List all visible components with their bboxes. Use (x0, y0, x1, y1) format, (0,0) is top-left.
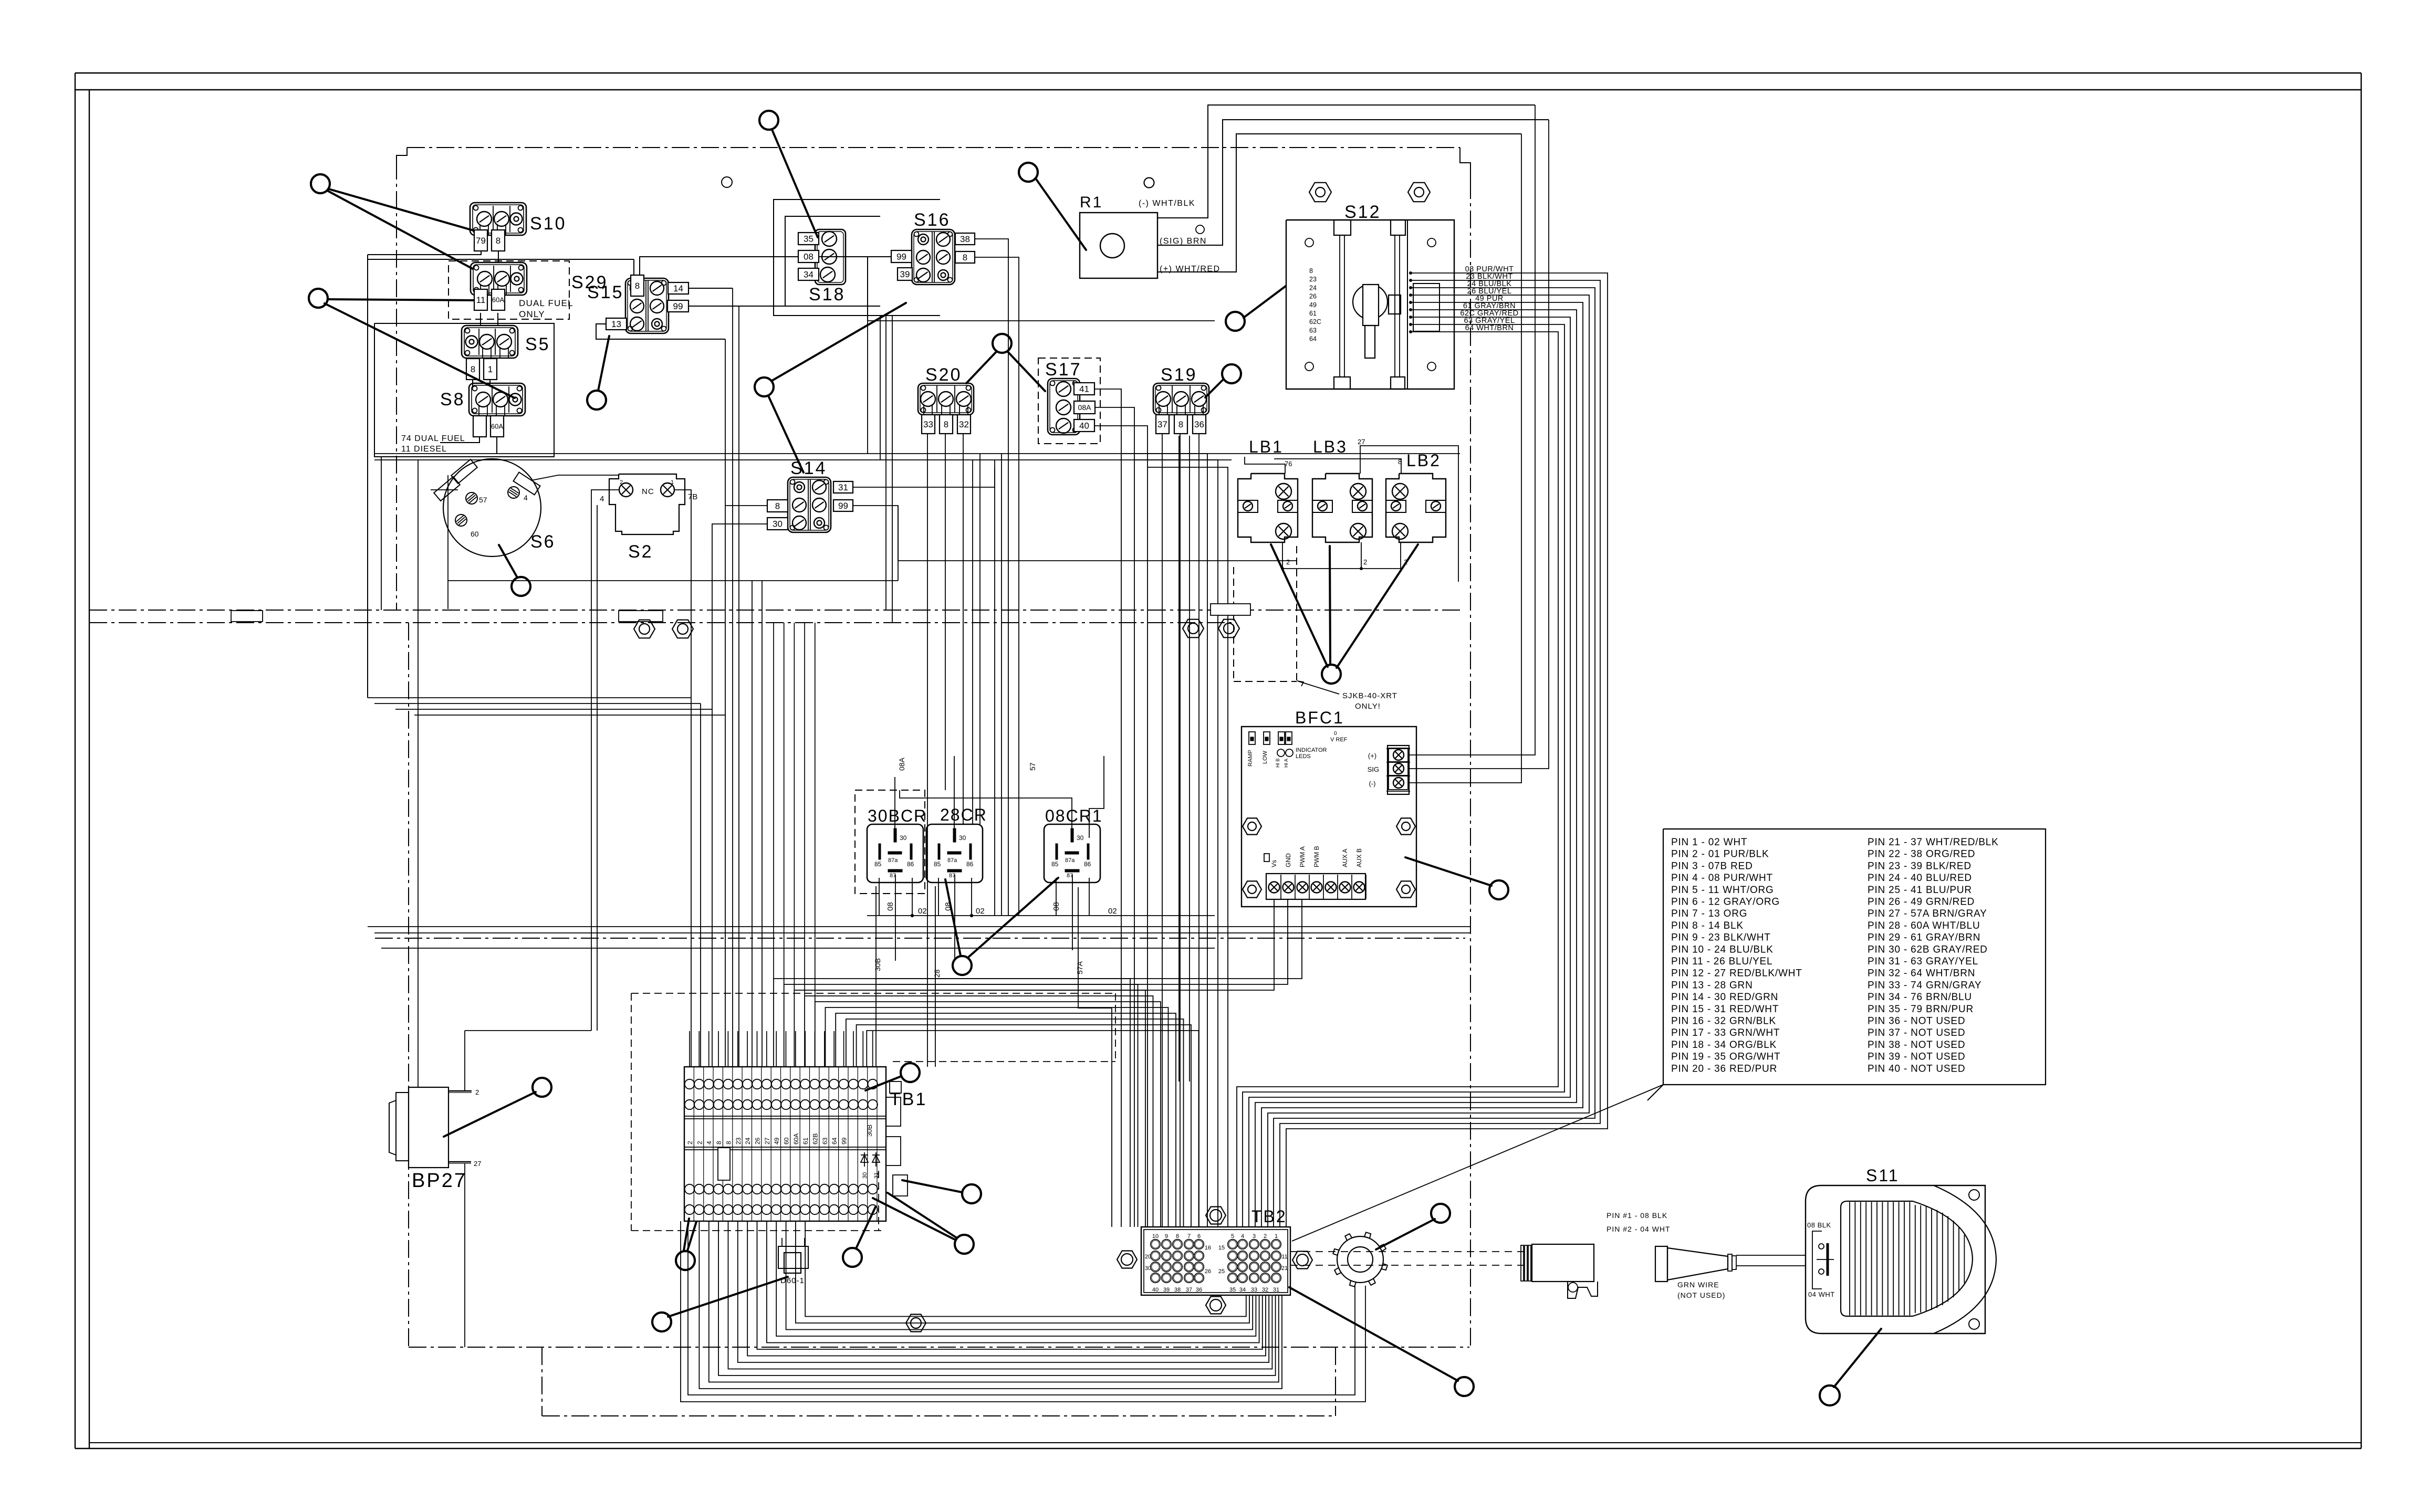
svg-text:02: 02 (1108, 907, 1117, 916)
balloon S11 (1820, 1329, 1881, 1405)
svg-text:64 WHT/BRN: 64 WHT/BRN (1465, 324, 1514, 332)
svg-text:PIN 1 - 02 WHT: PIN 1 - 02 WHT (1671, 837, 1747, 848)
wire S15-13 net vertical (725, 339, 726, 1067)
svg-text:S8: S8 (440, 390, 465, 409)
svg-text:S18: S18 (809, 285, 846, 304)
cable connector assembly (1521, 1244, 1806, 1298)
wire S12 net 64 (1237, 330, 1558, 1227)
svg-text:26: 26 (1205, 1268, 1211, 1275)
svg-text:40: 40 (1152, 1287, 1159, 1293)
hex nut chassis 3 (1183, 619, 1204, 638)
svg-text:BFC1: BFC1 (1295, 708, 1344, 727)
balloon BFC1 (1405, 857, 1508, 899)
svg-text:PIN 30 - 62B GRAY/RED: PIN 30 - 62B GRAY/RED (1868, 944, 1988, 955)
svg-text:74 DUAL FUEL: 74 DUAL FUEL (401, 434, 465, 443)
svg-text:PIN 17 - 33 GRN/WHT: PIN 17 - 33 GRN/WHT (1671, 1027, 1780, 1038)
wire S20 tags down (927, 434, 963, 1067)
wire S16-99 left (868, 257, 891, 321)
svg-text:PIN #1 - 08 BLK: PIN #1 - 08 BLK (1607, 1211, 1667, 1220)
svg-text:85: 85 (934, 860, 941, 868)
svg-text:8: 8 (471, 364, 475, 374)
svg-text:PWM A: PWM A (1299, 846, 1306, 867)
wire dash-dot chassis line middle pair (89, 610, 1460, 623)
wire R1 sig (1157, 120, 1549, 245)
svg-text:33: 33 (923, 419, 933, 429)
svg-text:28: 28 (933, 969, 941, 978)
svg-text:PIN 10 - 24 BLU/BLK: PIN 10 - 24 BLU/BLK (1671, 944, 1774, 955)
svg-text:60: 60 (471, 530, 479, 538)
svg-text:8: 8 (963, 253, 967, 262)
svg-text:23: 23 (735, 1137, 742, 1144)
round connector at TB2 (1333, 1232, 1388, 1287)
relay 08CR1 (1044, 806, 1103, 883)
label SJKB-40-XRT ONLY (1297, 681, 1397, 711)
wire WHT/RED vertical to BFC1 (1409, 134, 1521, 783)
svg-text:33: 33 (1251, 1287, 1257, 1293)
svg-text:PIN 8 - 14 BLK: PIN 8 - 14 BLK (1671, 920, 1744, 931)
wire S12 net 62C (1249, 316, 1570, 1227)
fuel sender S6 (434, 459, 555, 556)
svg-text:PIN 34 - 76 BRN/BLU: PIN 34 - 76 BRN/BLU (1868, 992, 1972, 1003)
balloon S19 (1205, 364, 1241, 397)
svg-text:PIN 40 - NOT USED: PIN 40 - NOT USED (1868, 1063, 1965, 1074)
balloon S12 (1226, 286, 1286, 331)
wire 7B vertical down (691, 495, 692, 1067)
svg-text:11 DIESEL: 11 DIESEL (401, 445, 447, 454)
balloon relays (945, 878, 1058, 975)
svg-text:S12: S12 (1344, 202, 1381, 222)
svg-text:2: 2 (686, 1141, 694, 1144)
svg-text:9: 9 (1165, 1233, 1168, 1240)
label S12 wire names (1460, 265, 1518, 332)
svg-text:8: 8 (715, 1141, 723, 1144)
wire R1 minus (1157, 105, 1535, 218)
svg-text:99: 99 (896, 252, 906, 262)
hole near R1 (1144, 178, 1154, 188)
svg-text:PIN 20 - 36 RED/PUR: PIN 20 - 36 RED/PUR (1671, 1063, 1777, 1074)
wire bundle TB1 column 5 to TB2 (815, 1002, 1161, 1227)
controller board BFC1 (1242, 708, 1416, 907)
label S12 pin list (1309, 267, 1321, 343)
hex nut chassis 4 (1218, 619, 1239, 638)
balloon S29-S8 (309, 289, 515, 398)
svg-text:NC: NC (642, 487, 654, 496)
switch S16 (891, 210, 975, 285)
svg-text:8: 8 (944, 419, 948, 429)
wire TB1 column stubs up (690, 1031, 873, 1067)
svg-text:HI B: HI B (1275, 758, 1280, 768)
wire bus y611 (868, 320, 1215, 321)
svg-text:1: 1 (488, 364, 493, 374)
svg-text:S15: S15 (587, 282, 624, 302)
svg-text:RAMP: RAMP (1247, 750, 1254, 766)
svg-text:PWM B: PWM B (1313, 846, 1320, 867)
label cable pins (1607, 1211, 1725, 1299)
wire S8 tags down (440, 437, 497, 454)
dashed box DUAL FUEL ONLY around S29 (448, 261, 573, 319)
svg-text:PIN 29 - 61 GRAY/BRN: PIN 29 - 61 GRAY/BRN (1868, 932, 1980, 943)
svg-text:PIN 27 - 57A BRN/GRAY: PIN 27 - 57A BRN/GRAY (1868, 908, 1987, 919)
svg-text:(NOT USED): (NOT USED) (1677, 1291, 1725, 1299)
svg-text:PIN 19 - 35 ORG/WHT: PIN 19 - 35 ORG/WHT (1671, 1052, 1780, 1063)
svg-text:30: 30 (1145, 1265, 1151, 1272)
svg-text:PIN 32 - 64 WHT/BRN: PIN 32 - 64 WHT/BRN (1868, 968, 1975, 979)
svg-text:31: 31 (838, 482, 848, 492)
svg-text:63: 63 (1309, 327, 1317, 334)
wire bundle TB1 bottom column 1 to TB2 bottom (699, 1221, 1282, 1389)
balloon TB2 lower (1289, 1287, 1474, 1396)
wire dash-dot panel boundary left vertical (396, 162, 397, 610)
svg-text:S2: S2 (628, 542, 653, 562)
svg-text:7B: 7B (688, 492, 697, 501)
svg-text:8: 8 (775, 501, 780, 511)
svg-text:13: 13 (611, 319, 621, 329)
wire S15-99 to right (689, 306, 785, 307)
connector block right of S12 (1413, 283, 1440, 331)
switch S17 with dashed box (1038, 358, 1100, 444)
wire S12 net 24 (1274, 286, 1595, 1227)
wire S16-8 to right (975, 257, 1019, 916)
svg-text:30B: 30B (873, 958, 882, 971)
svg-text:36: 36 (1196, 1287, 1202, 1293)
svg-text:S20: S20 (925, 365, 962, 385)
svg-text:PIN 36 - NOT USED: PIN 36 - NOT USED (1868, 1016, 1965, 1027)
svg-text:8: 8 (1178, 419, 1183, 429)
svg-text:63: 63 (821, 1137, 829, 1144)
resistor module R1 (1080, 194, 1157, 278)
svg-text:49: 49 (1309, 301, 1317, 309)
wire S17 nets down (1094, 389, 1148, 1227)
svg-text:S5: S5 (525, 334, 550, 354)
svg-text:5: 5 (1231, 1233, 1234, 1240)
wire relay 08CR1 pins (900, 756, 1104, 950)
wire bundle TB1 column 10 to TB2 (867, 1031, 1198, 1227)
relay 30BCR (867, 806, 927, 883)
wire bundle TB1 column 6 to TB2 (826, 1007, 1169, 1227)
svg-text:76: 76 (1285, 460, 1292, 468)
svg-text:38: 38 (960, 234, 970, 244)
wire S2 terminals (591, 490, 691, 498)
wire LB loop 76 (1245, 457, 1285, 474)
wire horizontals from left breakers (368, 698, 725, 715)
svg-text:99: 99 (838, 501, 848, 511)
wire 57A riser (1078, 887, 1112, 1227)
wire S15-99 net vertical (738, 306, 739, 1067)
svg-text:PIN 28 - 60A WHT/BLU: PIN 28 - 60A WHT/BLU (1868, 920, 1980, 931)
svg-text:99: 99 (841, 1137, 848, 1144)
circuit breaker S5 (462, 325, 550, 380)
wire S15-13 loop (596, 324, 725, 339)
foot switch S11 (1806, 1166, 1996, 1333)
svg-text:ONLY: ONLY (519, 309, 545, 319)
wire 30B riser (875, 886, 877, 1067)
svg-text:86: 86 (966, 860, 974, 868)
wire BFC1 bottom terminals down (874, 899, 1302, 990)
wire bundle TB1 bottom column 7 to TB2 bottom (757, 1221, 1263, 1349)
svg-text:0: 0 (1334, 731, 1337, 737)
terminal block TB2 (1141, 1207, 1290, 1295)
svg-text:32: 32 (959, 419, 969, 429)
wire bundle TB1 bottom column 12 to TB2 bottom (805, 1221, 1246, 1317)
svg-text:24: 24 (744, 1137, 752, 1144)
hole near S12 panel (1196, 225, 1204, 234)
svg-text:08A: 08A (898, 757, 906, 771)
dashed box around 30BCR (855, 790, 925, 894)
svg-text:8: 8 (1176, 1233, 1179, 1240)
wire S19 tags down (1162, 434, 1199, 1227)
svg-text:87a: 87a (1065, 857, 1075, 864)
svg-text:4: 4 (1241, 1233, 1244, 1240)
svg-text:60: 60 (783, 1137, 790, 1144)
svg-text:2: 2 (1363, 558, 1367, 566)
svg-text:02: 02 (918, 907, 927, 916)
wire BRN vertical to BFC1 (1409, 120, 1549, 769)
svg-text:31: 31 (1273, 1287, 1279, 1293)
wire enclosure box S5-S8 (368, 255, 554, 698)
wire relay 28CR pins (938, 756, 973, 961)
wire S6 lug to S2 (531, 475, 619, 480)
terminal block TB1 (684, 1067, 927, 1221)
wire bundle S17-S19 column down (1121, 436, 1228, 1227)
wire LB loop 27 (1360, 446, 1458, 582)
wire bundle TB1 column 9 to TB2 (857, 1025, 1191, 1227)
svg-text:61: 61 (1309, 310, 1317, 317)
balloon S18 (759, 111, 818, 237)
svg-text:(-): (-) (1369, 780, 1376, 787)
svg-text:8: 8 (635, 281, 640, 291)
wire bundle TB1 bottom column 4 to TB2 bottom (728, 1221, 1272, 1369)
relay 28CR (926, 805, 987, 883)
wire S15-14 to right (689, 288, 733, 289)
svg-text:10: 10 (1152, 1233, 1159, 1240)
svg-text:GRN WIRE: GRN WIRE (1677, 1280, 1719, 1289)
svg-text:49: 49 (773, 1137, 780, 1144)
svg-text:04 WHT: 04 WHT (1808, 1290, 1835, 1298)
svg-text:27: 27 (764, 1137, 771, 1144)
svg-text:30: 30 (900, 834, 907, 842)
label R1 wires (1139, 199, 1221, 274)
pin table text column 2 (1868, 837, 1999, 1074)
svg-text:20: 20 (1145, 1254, 1151, 1260)
balloon D60-1 (652, 1277, 788, 1331)
wire enclosure box S6 (431, 475, 458, 609)
svg-text:8: 8 (496, 236, 500, 246)
svg-text:26: 26 (754, 1137, 762, 1144)
switch assembly S12 (1286, 183, 1454, 389)
svg-text:HI A: HI A (1284, 759, 1289, 768)
svg-text:ONLY!: ONLY! (1355, 702, 1381, 711)
svg-text:PIN 31 - 63 GRAY/YEL: PIN 31 - 63 GRAY/YEL (1868, 956, 1978, 967)
svg-text:PIN 23 - 39 BLK/RED: PIN 23 - 39 BLK/RED (1868, 860, 1972, 871)
svg-text:08CR1: 08CR1 (1045, 806, 1103, 825)
wire left boundary verticals (381, 457, 418, 1087)
svg-text:INDICATOR: INDICATOR (1296, 747, 1327, 753)
svg-text:64: 64 (831, 1137, 838, 1144)
svg-text:57: 57 (479, 496, 487, 504)
svg-text:36: 36 (1194, 419, 1204, 429)
svg-text:PIN 15 - 31 RED/WHT: PIN 15 - 31 RED/WHT (1671, 1004, 1779, 1015)
svg-text:87a: 87a (888, 857, 898, 864)
wire bus y864 (374, 454, 1460, 460)
svg-text:30: 30 (862, 1172, 868, 1179)
wire column risers left (701, 556, 762, 1067)
wire S12 net 23 (1280, 279, 1600, 1227)
svg-text:PIN 35 - 79 BRN/PUR: PIN 35 - 79 BRN/PUR (1868, 1004, 1974, 1015)
wire long horizontal buses mid-low (368, 927, 1470, 948)
svg-text:PIN 2 - 01 PUR/BLK: PIN 2 - 01 PUR/BLK (1671, 849, 1769, 860)
wire bundle TB1 column 4 to TB2 (805, 996, 1153, 1227)
svg-text:30: 30 (773, 519, 783, 529)
wire bundle TB1 bottom column 9 to TB2 bottom (776, 1221, 1256, 1336)
svg-text:S17: S17 (1045, 360, 1082, 380)
wire R1 plus (1157, 134, 1521, 272)
wire S16-38 to right (975, 239, 1008, 916)
svg-text:14: 14 (673, 283, 683, 293)
svg-text:SIG: SIG (1368, 765, 1379, 773)
svg-text:08 BLK: 08 BLK (1807, 1221, 1831, 1229)
svg-text:BP27: BP27 (412, 1170, 467, 1192)
balloon TB1 lower right (873, 1193, 974, 1254)
svg-text:85: 85 (1051, 860, 1059, 868)
wire box bottom S2-S14 (448, 506, 898, 581)
svg-text:38: 38 (1174, 1287, 1181, 1293)
svg-text:AUX B: AUX B (1355, 848, 1363, 867)
hex nut chassis 2 (672, 620, 693, 638)
svg-text:08A: 08A (1078, 403, 1092, 412)
svg-text:39: 39 (1163, 1287, 1170, 1293)
wire bundle TB1 bottom column 10 to TB2 bottom (786, 1221, 1253, 1330)
balloon BP27 (444, 1078, 551, 1137)
svg-text:PIN 13 - 28 GRN: PIN 13 - 28 GRN (1671, 980, 1753, 991)
hex hole top middle (722, 177, 732, 187)
balloon S10-S29 (311, 174, 473, 269)
lamp LB2 (1386, 451, 1446, 542)
wire S2-4 vertical down (591, 498, 597, 1031)
svg-text:2: 2 (1286, 558, 1290, 566)
wire dashed link TB2 to cable (1290, 1252, 1524, 1265)
svg-text:4: 4 (524, 493, 528, 502)
wire bundle TB1 column 7 to TB2 (836, 1013, 1176, 1227)
svg-text:34: 34 (1239, 1287, 1246, 1293)
svg-text:DUAL FUEL: DUAL FUEL (519, 298, 573, 308)
svg-text:60A: 60A (492, 296, 504, 304)
svg-text:35: 35 (1229, 1287, 1236, 1293)
svg-text:(SIG) BRN: (SIG) BRN (1160, 237, 1207, 246)
svg-text:PIN 22 - 38 ORG/RED: PIN 22 - 38 ORG/RED (1868, 849, 1975, 860)
wire 28 riser (935, 886, 936, 1067)
svg-text:30: 30 (1077, 834, 1084, 842)
svg-text:PIN 25 - 41 BLU/PUR: PIN 25 - 41 BLU/PUR (1868, 885, 1972, 896)
svg-text:PIN 37 - NOT USED: PIN 37 - NOT USED (1868, 1027, 1965, 1038)
svg-text:PIN 12 - 27 RED/BLK/WHT: PIN 12 - 27 RED/BLK/WHT (1671, 968, 1802, 979)
wire gear connector nets (681, 1221, 1365, 1402)
switch S2 (600, 474, 697, 562)
svg-text:1: 1 (1275, 1233, 1278, 1240)
svg-text:86: 86 (907, 860, 914, 868)
switch S18 (798, 229, 846, 304)
svg-text:V REF: V REF (1330, 737, 1348, 743)
svg-text:R1: R1 (1080, 194, 1103, 211)
svg-text:PIN 33 - 74 GRN/GRAY: PIN 33 - 74 GRN/GRAY (1868, 980, 1981, 991)
svg-text:62B: 62B (812, 1133, 819, 1144)
svg-text:30B: 30B (865, 1125, 873, 1137)
svg-text:30: 30 (959, 834, 966, 842)
svg-text:PIN 14 - 30 RED/GRN: PIN 14 - 30 RED/GRN (1671, 992, 1778, 1003)
wire S10-79 down-left (368, 251, 481, 255)
svg-text:PIN 16 - 32 GRN/BLK: PIN 16 - 32 GRN/BLK (1671, 1016, 1776, 1027)
balloon round connector (1376, 1204, 1450, 1249)
svg-text:PIN 39 - NOT USED: PIN 39 - NOT USED (1868, 1052, 1965, 1063)
wire dash-dot panel boundary top (397, 148, 1470, 181)
svg-text:25: 25 (1218, 1268, 1225, 1275)
svg-text:PIN 26 - 49 GRN/RED: PIN 26 - 49 GRN/RED (1868, 897, 1975, 908)
svg-text:6: 6 (1197, 1233, 1201, 1240)
balloon S20-S17 (966, 334, 1045, 391)
wire S29-60A down (497, 313, 498, 325)
svg-text:PIN 11 - 26 BLU/YEL: PIN 11 - 26 BLU/YEL (1671, 956, 1772, 967)
balloon TB1 left (676, 1219, 696, 1270)
svg-text:2: 2 (1264, 1233, 1267, 1240)
svg-text:64: 64 (1309, 335, 1317, 343)
svg-text:S11: S11 (1866, 1166, 1900, 1185)
wire H1 column upward extensions (774, 623, 815, 1002)
diode connector D60-1 (778, 1238, 808, 1285)
wire bundle TB1 bottom column 11 to TB2 bottom (796, 1221, 1249, 1323)
wire bundle relay feeds (973, 454, 1002, 916)
svg-text:02: 02 (976, 907, 985, 916)
svg-text:79: 79 (476, 236, 486, 246)
wire WHT/BLK vertical to BFC1 (1409, 105, 1535, 755)
svg-text:21: 21 (1281, 1265, 1288, 1272)
svg-text:1: 1 (671, 479, 674, 486)
hex nuts around TB2 (1117, 1207, 1312, 1314)
svg-text:39: 39 (900, 269, 910, 279)
svg-text:8: 8 (725, 1141, 732, 1144)
dashed box SJKB region (1234, 546, 1297, 681)
svg-text:S6: S6 (530, 532, 556, 552)
wire S15-14 net vertical (732, 288, 733, 1067)
wire bundle TB1 bottom column 3 to TB2 bottom (718, 1221, 1276, 1375)
wire LB bottoms 2 (1281, 542, 1407, 570)
svg-text:2: 2 (696, 1141, 703, 1144)
svg-text:PIN 9 - 23 BLK/WHT: PIN 9 - 23 BLK/WHT (1671, 932, 1771, 943)
balloon S6 (499, 545, 530, 596)
wire bundle TB1 bottom column 6 to TB2 bottom (747, 1221, 1266, 1356)
wire S14 nets (712, 467, 995, 561)
switch S20 (918, 365, 974, 434)
wire S12 net 63 (1243, 323, 1564, 1227)
switch S14 (767, 458, 853, 532)
svg-text:PIN 3 - 07B RED: PIN 3 - 07B RED (1671, 860, 1753, 871)
wire enclosure box S18 outer (774, 199, 940, 316)
svg-text:35: 35 (804, 234, 813, 244)
pin table box (1647, 829, 2046, 1100)
wire bundle TB1 column 2 to TB2 (784, 984, 1138, 1227)
svg-text:86: 86 (1084, 860, 1091, 868)
svg-text:8: 8 (1309, 267, 1313, 275)
svg-text:30BCR: 30BCR (868, 806, 927, 825)
svg-text:(+): (+) (1368, 752, 1376, 760)
wire relay 30BCR pins (879, 777, 914, 961)
wire dash-dot panel boundary right vertical (1470, 181, 1471, 1346)
wire bundle TB1 column 3 to TB2 (794, 990, 1145, 1227)
svg-text:S14: S14 (790, 458, 827, 478)
switch S19 (1153, 365, 1209, 434)
wire S15-8 risers (368, 257, 891, 275)
svg-text:34: 34 (804, 270, 813, 280)
circuit breaker S10 (470, 203, 567, 251)
dashed box around TB1 (631, 993, 1115, 1231)
